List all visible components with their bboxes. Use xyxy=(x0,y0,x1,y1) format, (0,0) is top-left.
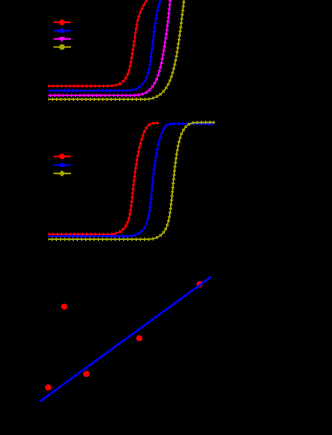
panel-2 sigmoid curve 3 (dark-yellow, diamond markers) xyxy=(48,122,215,239)
panel-2 legend entry 2 (blue up-triangle) xyxy=(54,162,72,167)
panel-3 scatter point 5 (red circle) xyxy=(197,281,203,287)
panel-1 legend entry 4 (dark-yellow circle) xyxy=(54,44,72,50)
panel-1 dose-response curve 4 (dark-yellow, circle markers) xyxy=(48,0,184,99)
panel-2 legend entry 3 (dark-yellow diamond) xyxy=(54,170,72,176)
panel-2 sigmoid curve 2 (blue, up-triangle markers) xyxy=(48,124,214,237)
panel-1 legend entry 2 (blue up-triangle) xyxy=(54,27,72,32)
panel-3 scatter point 4 (red circle) xyxy=(136,335,142,341)
panel-3 scatter point 2 (red circle) xyxy=(45,384,51,390)
panel-1 legend entry 3 (magenta down-triangle) xyxy=(54,37,72,42)
panel-2 sigmoid curve 1 (red, circle markers) xyxy=(48,123,159,234)
panel-3 scatter point 3 (red circle) xyxy=(83,371,89,377)
panel-3 scatter point 1 (red circle) xyxy=(61,304,67,310)
panel-1 dose-response curve 2 (blue, up-triangle markers) xyxy=(48,0,160,91)
panel-1 dose-response curve 3 (magenta, down-triangle markers) xyxy=(48,0,170,95)
panel-2 legend entry 1 (red circle) xyxy=(54,154,72,160)
panel-3 linear fit line (blue) xyxy=(40,277,212,402)
panel-1 legend entry 1 (red circle) xyxy=(54,19,72,25)
panel-1 dose-response curve 1 (red, circle markers) xyxy=(48,0,147,86)
